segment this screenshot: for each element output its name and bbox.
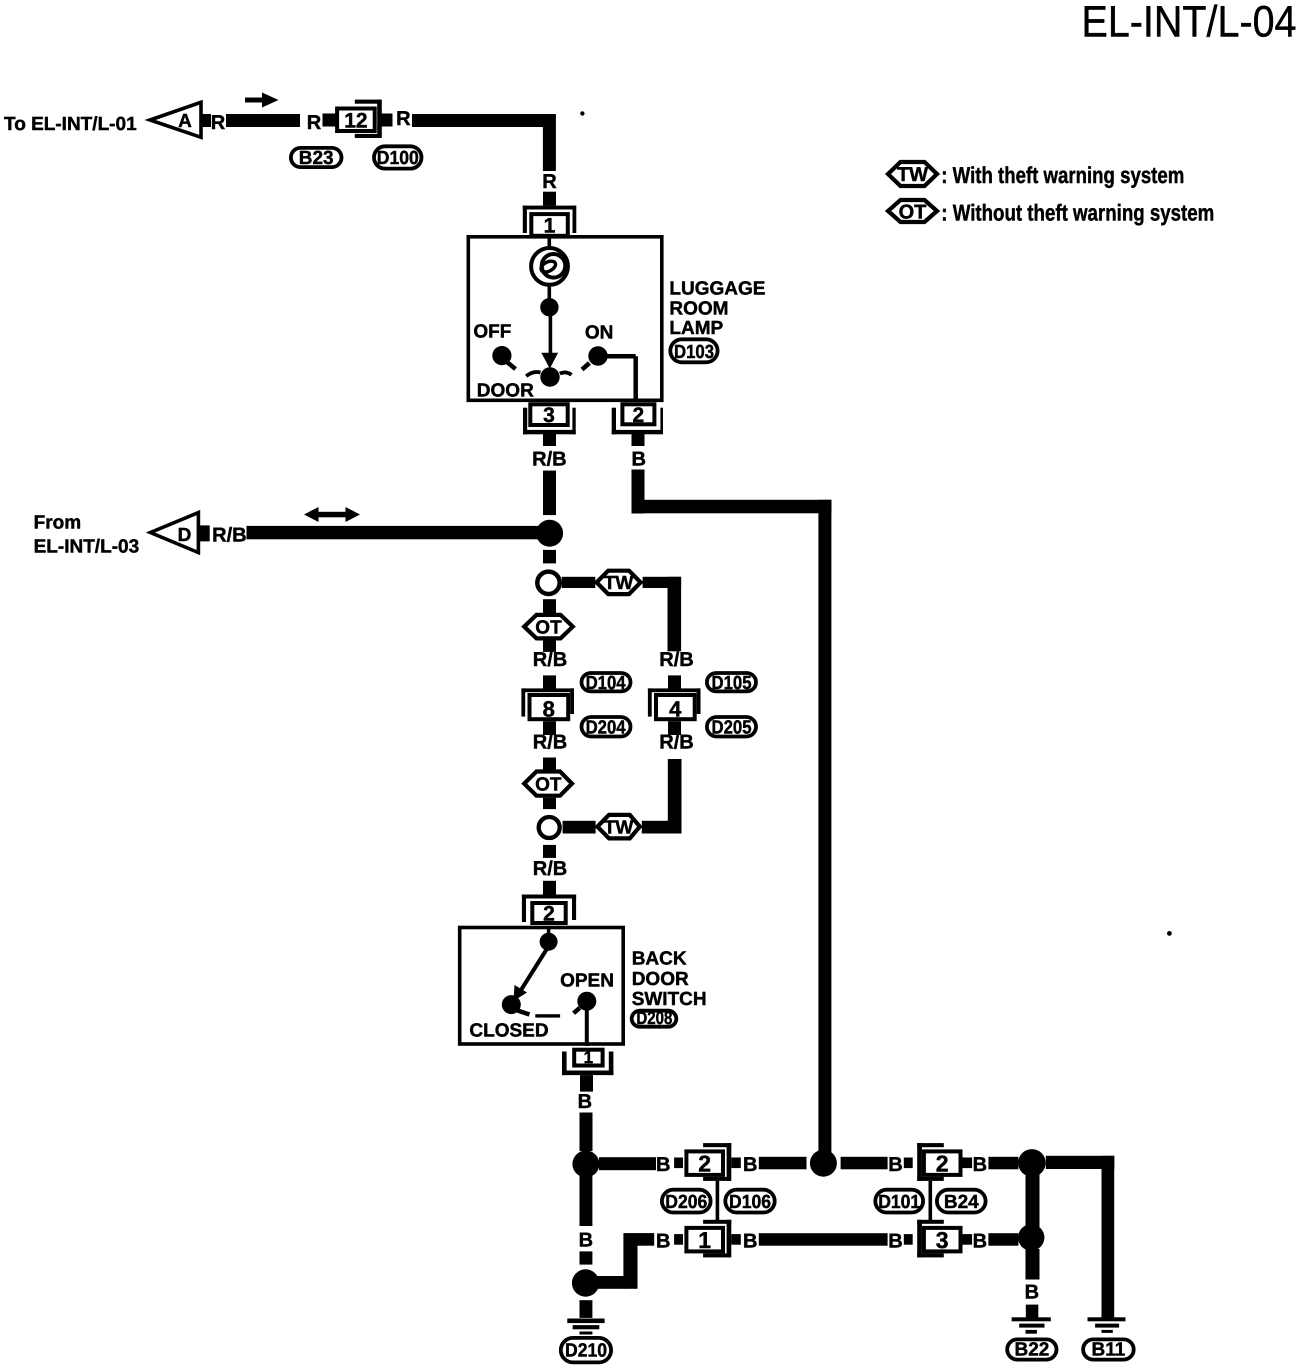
- svg-text:ON: ON: [585, 322, 614, 343]
- svg-text:D208: D208: [636, 1008, 672, 1028]
- svg-text:: Without theft warning system: : Without theft warning system: [941, 199, 1214, 225]
- svg-text:D105: D105: [712, 673, 752, 694]
- svg-text:R/B: R/B: [659, 732, 693, 754]
- svg-text:DOOR: DOOR: [477, 380, 534, 401]
- svg-text:1: 1: [698, 1227, 711, 1253]
- svg-text:3: 3: [936, 1227, 949, 1253]
- svg-text:CLOSED: CLOSED: [469, 1020, 548, 1041]
- svg-text:12: 12: [344, 109, 367, 132]
- svg-text:B: B: [973, 1231, 987, 1253]
- svg-text:B: B: [579, 1230, 593, 1252]
- svg-text:B: B: [743, 1154, 757, 1176]
- svg-text:B: B: [743, 1231, 757, 1253]
- svg-text:B: B: [656, 1154, 670, 1176]
- svg-text:DOOR: DOOR: [632, 969, 689, 990]
- svg-text:R: R: [396, 108, 411, 130]
- svg-text:3: 3: [543, 404, 555, 427]
- svg-text:OFF: OFF: [473, 322, 511, 343]
- svg-text:TW: TW: [604, 573, 634, 594]
- svg-text:: With theft warning system: : With theft warning system: [941, 162, 1184, 188]
- svg-text:4: 4: [669, 696, 682, 721]
- svg-text:2: 2: [543, 903, 555, 926]
- svg-text:D: D: [178, 525, 192, 546]
- svg-text:R/B: R/B: [212, 524, 246, 546]
- svg-text:D101: D101: [878, 1192, 920, 1213]
- svg-text:B: B: [888, 1231, 902, 1253]
- svg-text:LUGGAGE: LUGGAGE: [669, 278, 765, 299]
- svg-text:D103: D103: [674, 342, 714, 363]
- svg-text:R: R: [211, 112, 226, 134]
- svg-text:R/B: R/B: [533, 649, 567, 671]
- svg-text:B: B: [578, 1091, 592, 1113]
- svg-text:B24: B24: [944, 1192, 979, 1213]
- svg-text:R: R: [307, 112, 322, 134]
- svg-text:B: B: [973, 1154, 987, 1176]
- svg-text:B11: B11: [1091, 1340, 1125, 1361]
- svg-text:A: A: [178, 111, 192, 132]
- svg-text:1: 1: [584, 1048, 593, 1067]
- svg-text:SWITCH: SWITCH: [632, 989, 707, 1010]
- svg-text:TW: TW: [604, 817, 634, 838]
- svg-text:B: B: [888, 1154, 902, 1176]
- svg-text:D205: D205: [712, 718, 752, 739]
- svg-text:To EL-INT/L-01: To EL-INT/L-01: [4, 114, 137, 135]
- svg-text:B22: B22: [1014, 1340, 1049, 1361]
- svg-text:D206: D206: [665, 1192, 707, 1213]
- svg-text:B23: B23: [299, 148, 334, 169]
- svg-text:8: 8: [543, 696, 555, 721]
- svg-text:D106: D106: [729, 1192, 771, 1213]
- svg-text:B: B: [1025, 1281, 1039, 1303]
- svg-text:OT: OT: [535, 774, 562, 795]
- svg-text:R/B: R/B: [533, 858, 567, 880]
- svg-text:EL-INT/L-04: EL-INT/L-04: [1082, 0, 1297, 47]
- svg-text:D204: D204: [586, 718, 626, 739]
- svg-text:OPEN: OPEN: [560, 971, 614, 992]
- svg-text:1: 1: [544, 215, 556, 238]
- svg-text:D104: D104: [586, 673, 626, 694]
- svg-text:R: R: [542, 171, 557, 193]
- svg-text:B: B: [631, 449, 645, 471]
- svg-text:D210: D210: [565, 1341, 607, 1362]
- svg-text:2: 2: [633, 404, 645, 427]
- svg-text:ROOM: ROOM: [669, 298, 728, 319]
- svg-text:LAMP: LAMP: [669, 318, 723, 339]
- svg-text:OT: OT: [535, 618, 562, 639]
- svg-text:2: 2: [936, 1151, 949, 1177]
- svg-text:BACK: BACK: [632, 949, 687, 970]
- svg-text:R/B: R/B: [532, 449, 566, 471]
- svg-text:EL-INT/L-03: EL-INT/L-03: [34, 537, 140, 558]
- svg-text:R/B: R/B: [533, 732, 567, 754]
- svg-text:OT: OT: [899, 201, 927, 223]
- svg-text:From: From: [34, 513, 82, 534]
- svg-text:B: B: [656, 1231, 670, 1253]
- svg-text:2: 2: [698, 1151, 711, 1177]
- svg-text:R/B: R/B: [659, 649, 693, 671]
- svg-text:TW: TW: [897, 164, 928, 186]
- svg-text:D100: D100: [377, 148, 419, 169]
